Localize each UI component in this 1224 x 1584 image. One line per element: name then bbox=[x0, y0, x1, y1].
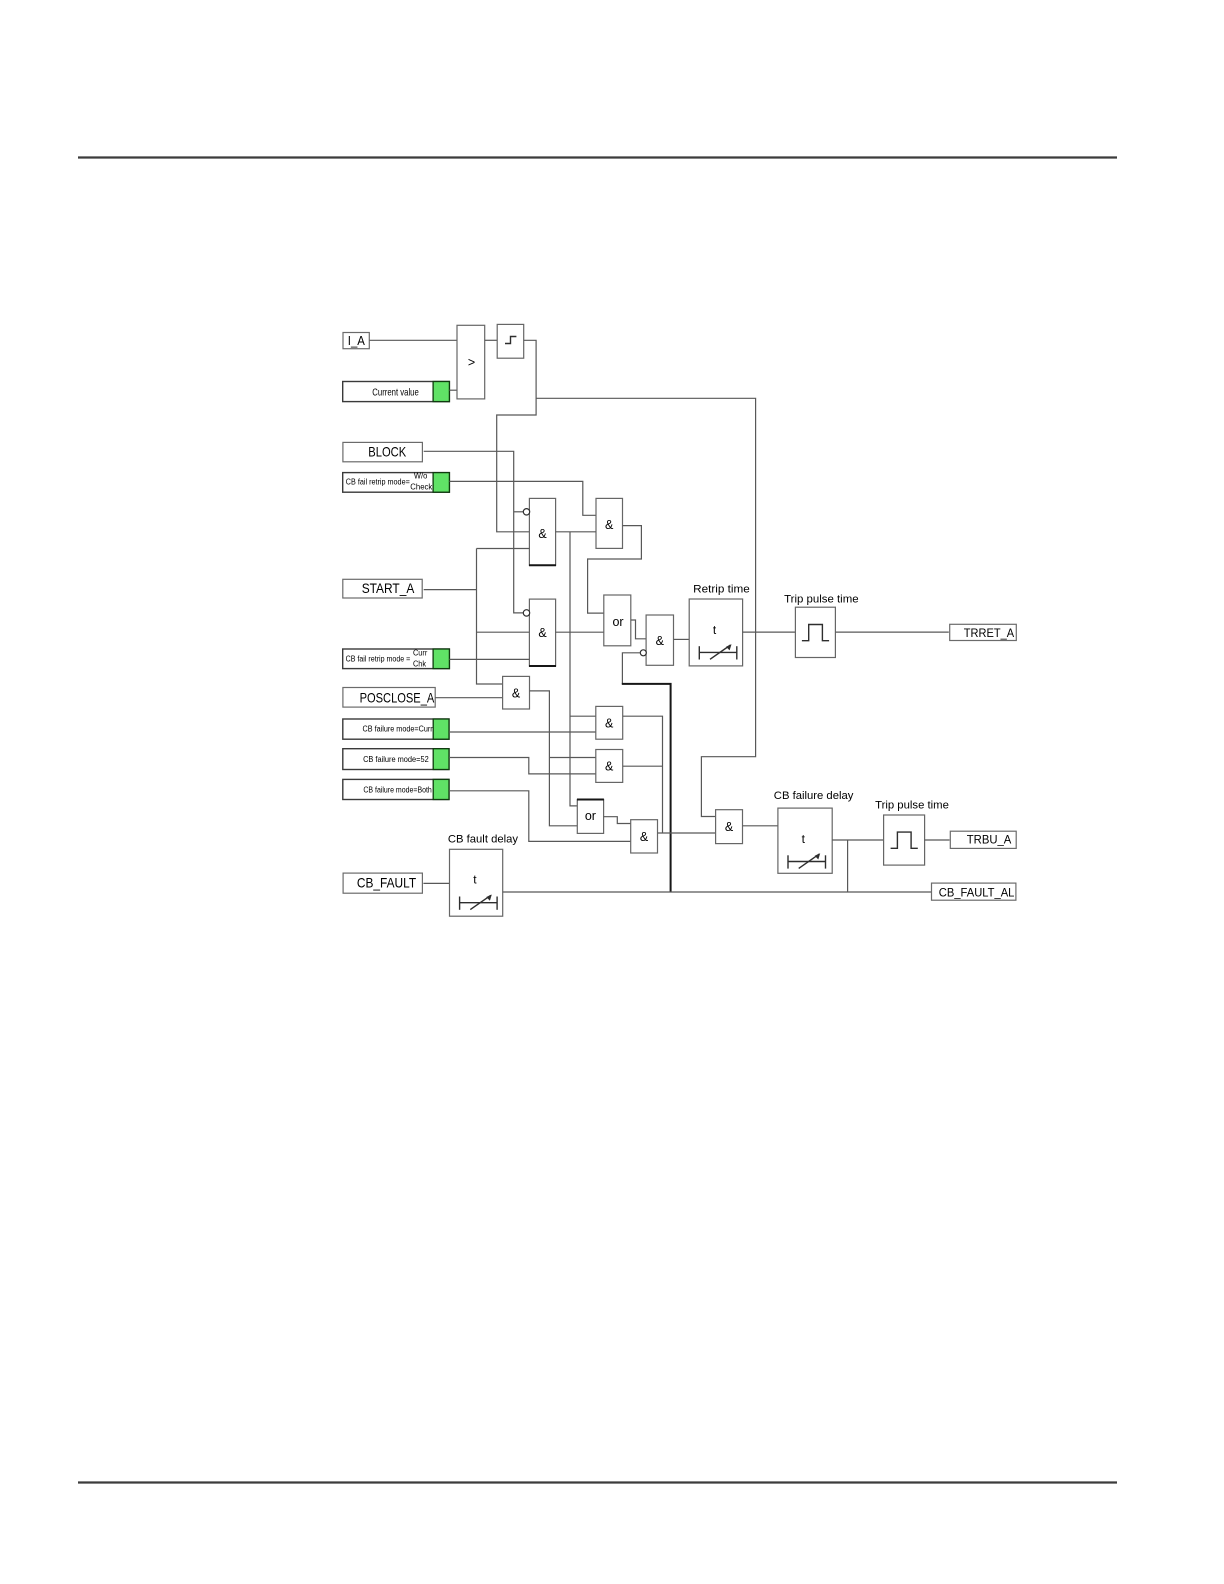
svg-text:W/o: W/o bbox=[414, 472, 428, 481]
wire CB_FAULT to T3 bbox=[423, 882, 449, 884]
svg-text:Trip pulse time: Trip pulse time bbox=[784, 594, 859, 606]
svg-text:CB fail retrip mode =: CB fail retrip mode = bbox=[346, 654, 411, 663]
bottom rule bbox=[78, 1481, 1117, 1483]
svg-text:Retrip time: Retrip time bbox=[693, 583, 750, 595]
pulse box P1 bbox=[795, 607, 835, 657]
comparator U1 bbox=[457, 325, 485, 399]
wire Current value to comparator bbox=[449, 389, 457, 391]
svg-text:CB_FAULT: CB_FAULT bbox=[357, 874, 417, 890]
svg-text:>: > bbox=[468, 355, 475, 369]
input box BLOCK bbox=[343, 442, 423, 461]
and-gate G3 bbox=[529, 599, 556, 666]
input box CB_FAULT bbox=[343, 873, 422, 893]
svg-text:CB fail retrip mode=: CB fail retrip mode= bbox=[346, 477, 410, 486]
svg-text:CB_FAULT_AL: CB_FAULT_AL bbox=[939, 886, 1015, 900]
svg-text:&: & bbox=[605, 760, 614, 774]
inverter bubble G1 bbox=[523, 509, 529, 515]
wire P1 to TRRET_A bbox=[835, 631, 948, 633]
input box START_A bbox=[343, 579, 422, 598]
and-gate G1 bbox=[529, 498, 556, 565]
and-gate G6 bbox=[596, 706, 623, 739]
svg-text:&: & bbox=[512, 686, 521, 700]
wire joined outputs G6 G7 bbox=[623, 716, 663, 833]
wire I_A to comparator bbox=[369, 339, 457, 341]
setting box CB failure mode=Curr bbox=[343, 719, 449, 739]
wire Curr Chk to G3 bbox=[449, 658, 529, 660]
svg-text:&: & bbox=[605, 518, 614, 532]
setting box CB failure mode=52 bbox=[343, 749, 449, 770]
inverter bubble G5 bbox=[640, 650, 646, 656]
setting box CB fail retrip mode=Curr Chk bbox=[343, 649, 450, 669]
svg-text:&: & bbox=[538, 527, 547, 541]
svg-text:&: & bbox=[605, 716, 614, 730]
and-gate G8 bbox=[631, 820, 658, 853]
setting box Current value bbox=[343, 382, 450, 402]
timer T3 CB fault delay bbox=[450, 849, 503, 916]
svg-text:or: or bbox=[612, 615, 623, 629]
setting box CB failure mode=Both bbox=[343, 779, 449, 799]
wire W/o Check to AND G2 bbox=[449, 481, 596, 515]
wire T1 to P1 bbox=[743, 631, 796, 633]
wire POSCLOSE_A to G4 bbox=[435, 697, 502, 699]
wire trigger output to AND G1 bbox=[497, 340, 536, 532]
wire P2 to TRBU_A bbox=[925, 839, 950, 841]
wire G2 output to OR1 bbox=[588, 526, 642, 614]
svg-text:CB fault delay: CB fault delay bbox=[448, 834, 519, 846]
setting box CB fail retrip mode=W/o Check bbox=[343, 472, 450, 493]
input box POSCLOSE_A bbox=[343, 688, 435, 708]
svg-text:START_A: START_A bbox=[362, 580, 415, 596]
top rule bbox=[78, 156, 1117, 158]
wire G8 output to G9 bbox=[658, 832, 716, 834]
and-gate G4 bbox=[503, 676, 530, 709]
and-gate G5 bbox=[646, 615, 673, 665]
and-gate G2 bbox=[596, 498, 623, 548]
wire G9 to T2 bbox=[743, 825, 778, 827]
svg-text:CB failure delay: CB failure delay bbox=[774, 790, 854, 802]
svg-text:&: & bbox=[725, 820, 734, 834]
or-gate OR1 bbox=[604, 595, 631, 646]
wire OR1 to G5 bbox=[631, 620, 646, 639]
output box CB_FAULT_AL bbox=[932, 883, 1016, 900]
svg-text:I_A: I_A bbox=[348, 333, 365, 348]
and-gate G7 bbox=[596, 750, 623, 783]
timer T2 CB failure delay bbox=[778, 808, 832, 873]
wire G1 output net bbox=[556, 532, 596, 806]
wire BLOCK net bbox=[424, 451, 524, 613]
svg-text:Check: Check bbox=[410, 482, 433, 491]
svg-text:CB failure mode=52: CB failure mode=52 bbox=[363, 755, 429, 764]
and-gate G9 bbox=[716, 810, 743, 844]
svg-text:Trip pulse time: Trip pulse time bbox=[875, 800, 949, 812]
pulse box P2 bbox=[884, 815, 925, 865]
svg-text:&: & bbox=[538, 626, 547, 640]
svg-text:CB failure mode=Both: CB failure mode=Both bbox=[363, 786, 431, 795]
wire feedback to G5 bubble bbox=[622, 653, 640, 684]
svg-text:or: or bbox=[585, 809, 596, 823]
svg-text:Chk: Chk bbox=[413, 659, 427, 668]
svg-text:&: & bbox=[640, 830, 649, 844]
svg-text:POSCLOSE_A: POSCLOSE_A bbox=[360, 690, 435, 706]
wire comparator to trigger bbox=[485, 339, 498, 341]
or-gate OR2 bbox=[577, 800, 604, 834]
wire 52 to G7 bbox=[449, 758, 596, 774]
wire START_A net bbox=[424, 549, 530, 685]
wire T2 to P2 bbox=[832, 840, 883, 892]
wire Both to G8 bbox=[449, 791, 631, 842]
wire OR2 to G8 bbox=[604, 817, 631, 824]
wire G4 output net bbox=[530, 691, 596, 826]
svg-text:BLOCK: BLOCK bbox=[368, 444, 406, 460]
inverter bubble G3 bbox=[523, 610, 529, 616]
wire trigger output net to AND G9 bbox=[536, 398, 756, 816]
svg-text:TRRET_A: TRRET_A bbox=[964, 628, 1015, 640]
wire G3 output to OR1 bbox=[556, 631, 605, 633]
svg-text:&: & bbox=[656, 634, 665, 648]
wire Curr to G6 bbox=[449, 731, 596, 733]
timer T1 Retrip time bbox=[689, 599, 742, 666]
svg-text:CB failure mode=Curr: CB failure mode=Curr bbox=[363, 725, 433, 734]
svg-text:Curr: Curr bbox=[413, 649, 428, 658]
wire alarm line to CB_FAULT_AL bbox=[503, 891, 932, 893]
output box TRRET_A bbox=[950, 624, 1017, 640]
output box TRBU_A bbox=[950, 831, 1016, 848]
input box I_A bbox=[343, 333, 369, 349]
wire G5 to T1 bbox=[674, 638, 690, 640]
svg-text:TRBU_A: TRBU_A bbox=[967, 835, 1012, 847]
svg-text:Current value: Current value bbox=[372, 386, 419, 398]
trigger box (step) bbox=[497, 324, 524, 358]
